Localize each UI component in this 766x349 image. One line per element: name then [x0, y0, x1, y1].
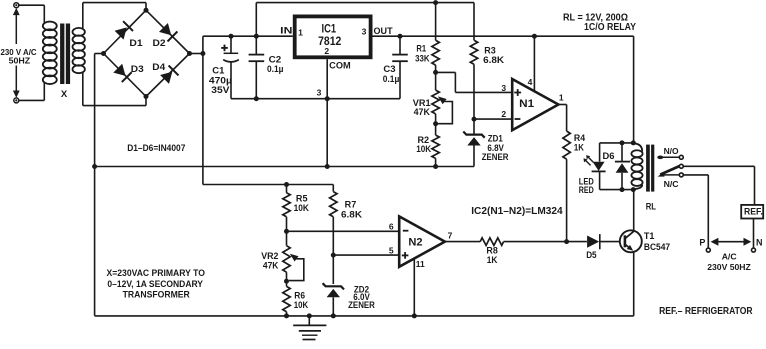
node bridge left — [101, 51, 106, 56]
label D1 — [129, 38, 142, 48]
svg-text:47K: 47K — [414, 107, 431, 117]
node terminal P — [706, 248, 710, 252]
transformer X primary winding — [43, 22, 57, 84]
node VR1-R2 junction — [433, 121, 438, 126]
capacitor C2 — [249, 36, 265, 98]
svg-text:COM: COM — [329, 61, 351, 71]
wire R4 bottom — [566, 159, 568, 241]
pin 2 N1 — [501, 109, 506, 119]
node pin4 junction — [532, 34, 537, 39]
svg-text:10K: 10K — [294, 300, 309, 310]
wire top rail down to bridge top node — [145, 3, 147, 11]
svg-text:D2: D2 — [153, 38, 166, 48]
wire secondary top to top rail — [83, 3, 146, 29]
transistor T1 BC547 — [620, 230, 642, 252]
node coil top junction — [631, 140, 636, 145]
relay armature — [658, 166, 680, 177]
wire R1 bottom — [435, 65, 437, 90]
wire bridge edge bottom-right — [146, 54, 190, 97]
label N/C — [664, 179, 679, 189]
svg-text:33K: 33K — [415, 54, 430, 64]
wire ground bus middle — [95, 166, 474, 168]
label COM — [329, 61, 351, 71]
wire ground bus under caps — [231, 98, 400, 100]
N2 plus — [402, 252, 409, 259]
svg-text:1: 1 — [559, 92, 564, 102]
pin 3 IC1 — [362, 27, 367, 37]
label T1 BC547 — [644, 231, 670, 252]
svg-text:6.8K: 6.8K — [341, 210, 363, 220]
resistor R8 — [480, 238, 503, 246]
svg-text:D1: D1 — [129, 38, 142, 48]
label LED RED — [579, 176, 594, 195]
node pin11 ground junction — [412, 313, 417, 318]
label OUT — [374, 26, 394, 36]
label D5 — [586, 250, 596, 260]
node bridge top — [144, 8, 149, 13]
wire bridge edge left-bottom — [104, 54, 147, 97]
diode D4 — [160, 66, 178, 84]
wire relay top bus — [600, 142, 634, 144]
svg-text:ZENER: ZENER — [348, 300, 375, 310]
arrow A/C span — [711, 238, 752, 246]
node R1 top junction — [433, 0, 438, 5]
pin 1 N1 — [559, 92, 564, 102]
wire R5 top lead — [286, 185, 288, 193]
load REF box — [741, 205, 763, 219]
wire relay supply corner — [633, 36, 635, 145]
wire D5 to T1 base — [600, 241, 624, 243]
label D4 — [152, 62, 165, 72]
VR2 wiper — [289, 254, 304, 281]
relay contact N/C — [662, 173, 684, 177]
svg-text:6.8K: 6.8K — [483, 55, 505, 65]
wire bridge edge top-right — [146, 10, 190, 53]
svg-text:N/C: N/C — [664, 179, 679, 189]
diode D2 — [159, 23, 177, 41]
label R3 6.8K — [483, 45, 505, 65]
svg-text:R1: R1 — [416, 44, 426, 54]
svg-text:47K: 47K — [263, 260, 279, 270]
label P — [699, 238, 705, 248]
svg-text:1C/O RELAY: 1C/O RELAY — [584, 22, 636, 33]
label R2 10K — [416, 135, 431, 154]
svg-text:REF.– REFRIGERATOR: REF.– REFRIGERATOR — [659, 305, 753, 317]
pin 3 N1 — [501, 83, 506, 93]
node AC input terminal top — [14, 3, 19, 8]
svg-text:IN: IN — [280, 26, 292, 36]
potentiometer VR2 — [283, 246, 290, 273]
node C3 top junction — [398, 34, 403, 39]
svg-text:ZENER: ZENER — [482, 152, 509, 162]
svg-text:1K: 1K — [574, 142, 584, 152]
relay coil RL — [631, 143, 642, 189]
svg-text:11: 11 — [416, 259, 425, 269]
op-amp N1 — [512, 79, 558, 130]
op-amp N2 — [399, 216, 445, 266]
svg-text:N1: N1 — [519, 98, 534, 110]
wire R3 top — [473, 3, 475, 41]
svg-text:3: 3 — [501, 83, 506, 93]
svg-text:REF.: REF. — [744, 206, 763, 216]
svg-text:T1: T1 — [644, 231, 655, 241]
svg-text:230V 50HZ: 230V 50HZ — [707, 262, 751, 272]
wire bridge bottom node down — [145, 97, 147, 106]
label R1 33K — [415, 44, 430, 64]
svg-text:3: 3 — [362, 27, 367, 37]
wire unregulated rail to IC1 IN — [203, 35, 293, 37]
svg-text:0.1µ: 0.1µ — [267, 64, 284, 74]
zener ZD1 — [463, 132, 484, 167]
resistor R7 — [330, 192, 337, 217]
label D6 — [603, 151, 615, 161]
node VR2-R6 junction — [284, 279, 289, 284]
svg-text:2: 2 — [324, 46, 329, 56]
label node 3 — [317, 88, 322, 98]
pin 7 N2 — [448, 230, 453, 240]
label IN — [280, 26, 292, 36]
svg-text:D4: D4 — [152, 62, 165, 72]
node junction plus bus — [200, 51, 205, 56]
wire R7 column top — [332, 185, 334, 192]
transformer X secondary winding — [73, 28, 85, 73]
node D6 bottom junction — [620, 187, 625, 192]
diode D1 — [115, 21, 133, 39]
node R5 top junction — [284, 182, 289, 187]
svg-text:0–12V, 1A SECONDARY: 0–12V, 1A SECONDARY — [107, 279, 203, 289]
label R7 6.8K — [341, 200, 363, 220]
diode D3 — [113, 64, 131, 82]
svg-text:470µ: 470µ — [209, 76, 232, 86]
wire N2 output — [445, 241, 480, 243]
diode D5 — [587, 234, 600, 249]
diode D6 freewheel — [615, 143, 630, 190]
svg-text:7: 7 — [448, 230, 453, 240]
svg-text:7812: 7812 — [318, 34, 341, 48]
wire R5 bottom — [286, 217, 288, 246]
label R8 1K — [486, 246, 497, 265]
svg-text:X=230VAC PRIMARY TO: X=230VAC PRIMARY TO — [107, 268, 205, 278]
svg-text:N/O: N/O — [664, 146, 679, 156]
node pin6 junction — [284, 229, 289, 234]
wire R1 top — [435, 3, 437, 41]
wire plus feed to dividers — [203, 184, 333, 186]
wire — [43, 82, 45, 101]
label C3 value — [383, 64, 400, 84]
node coil bottom junction — [631, 187, 636, 192]
wire VR1 bottom — [435, 114, 437, 135]
wire — [19, 4, 45, 6]
wire to N1 pin3 — [436, 72, 513, 92]
node COM-ground junction — [325, 164, 330, 169]
node ground-left junction — [92, 164, 97, 169]
label R6 10K — [294, 290, 309, 310]
svg-text:IC2(N1–N2)=LM324: IC2(N1–N2)=LM324 — [471, 205, 563, 217]
node pin2 junction — [472, 117, 477, 122]
wire VR2 bottom — [286, 272, 288, 286]
label IC2(N1-N2)=LM324 — [471, 205, 563, 217]
capacitor C1 — [221, 36, 239, 98]
svg-text:10K: 10K — [416, 144, 431, 154]
wire to N1 pin2 — [474, 118, 512, 120]
label RL — [646, 201, 656, 212]
wire regulated rail from IC1 OUT — [373, 35, 634, 37]
label 7812 — [318, 34, 341, 48]
op-amp regulator IC1 7812 box — [295, 16, 371, 57]
label N — [756, 238, 763, 248]
label A/C 230V 50HZ — [707, 251, 751, 272]
node earth junction — [307, 313, 312, 318]
node C2 ground junction — [254, 96, 259, 101]
svg-text:D3: D3 — [131, 64, 144, 74]
node COM ground junction — [325, 96, 330, 101]
svg-text:4: 4 — [528, 77, 533, 87]
wire T1 emitter down — [633, 252, 635, 316]
svg-text:C1: C1 — [212, 66, 224, 76]
label D1-D6=IN4007 — [127, 143, 185, 153]
label D2 — [153, 38, 166, 48]
pin 1 IC1 — [298, 28, 303, 38]
svg-text:35V: 35V — [211, 85, 229, 95]
zener ZD2 — [323, 283, 344, 316]
label 230 V A/C 50HZ with arrows — [1, 8, 37, 98]
pin 5 N2 — [389, 245, 394, 255]
node pin5 junction — [331, 253, 336, 258]
wire to N2 pin6 — [287, 230, 400, 232]
resistor R1 — [432, 40, 439, 65]
svg-text:1: 1 — [298, 28, 303, 38]
svg-text:TRANSFORMER: TRANSFORMER — [123, 289, 191, 299]
relay contact common — [679, 164, 683, 168]
wire common to REF — [683, 166, 754, 205]
wire N1 output — [558, 105, 566, 132]
label ZD2 6.0V ZENER — [348, 284, 375, 310]
label RL = 12V 200ohm — [563, 12, 628, 23]
svg-text:D1–D6=IN4007: D1–D6=IN4007 — [127, 143, 185, 153]
pin 6 N2 — [389, 222, 394, 232]
label D3 — [131, 64, 144, 74]
label ZD1 6.8V ZENER — [482, 134, 509, 162]
svg-text:BC547: BC547 — [644, 242, 670, 252]
label IC1 — [322, 22, 337, 36]
potentiometer VR1 — [432, 90, 439, 114]
svg-text:R3: R3 — [484, 45, 496, 55]
N2 minus — [403, 230, 409, 232]
LED D6 red — [584, 143, 606, 190]
wire bridge right node to plus bus — [190, 53, 203, 55]
svg-text:N: N — [756, 238, 763, 248]
node R6 ground junction — [284, 313, 289, 318]
label C2 value — [267, 55, 284, 74]
svg-text:RED: RED — [579, 185, 594, 195]
svg-text:10K: 10K — [294, 203, 310, 213]
svg-text:OUT: OUT — [374, 26, 394, 36]
pin 11 N2 — [416, 259, 425, 269]
wire N1 pin4 supply — [533, 36, 535, 91]
label REF refrigerator — [659, 305, 753, 317]
svg-text:C3: C3 — [383, 64, 395, 74]
wire riser to top rail — [255, 3, 257, 37]
label N/O — [664, 146, 679, 156]
label transformer note — [107, 268, 205, 299]
label C1 value — [209, 66, 232, 95]
node bridge bottom — [144, 94, 149, 99]
svg-text:R6: R6 — [294, 290, 305, 300]
wire R3 bottom to ZD1 — [473, 64, 475, 134]
svg-text:RL: RL — [646, 201, 656, 212]
wire bridge edge left-top — [104, 10, 147, 53]
label 1C/O RELAY — [584, 22, 636, 33]
resistor R2 — [432, 135, 439, 158]
wire R2 bottom — [435, 158, 437, 166]
svg-text:D5: D5 — [586, 250, 596, 260]
wire plus vertical — [202, 36, 204, 184]
svg-text:X: X — [61, 89, 68, 100]
svg-text:2: 2 — [501, 109, 506, 119]
N1 plus — [514, 89, 521, 96]
relay core — [646, 145, 654, 192]
node ZD2 ground junction — [331, 313, 336, 318]
node R1-VR1 junction — [433, 70, 438, 75]
resistor R5 — [283, 193, 290, 217]
node C1 top junction — [229, 34, 234, 39]
label N1 — [519, 98, 534, 110]
svg-text:R7: R7 — [345, 200, 357, 210]
wire IC1 COM to ground — [326, 59, 328, 166]
label R4 1K — [574, 133, 585, 152]
wire to N2 pin5 — [333, 254, 399, 256]
svg-text:0.1µ: 0.1µ — [383, 74, 400, 84]
relay contact N/O — [657, 155, 683, 159]
wire T1 collector up — [633, 190, 635, 231]
wire relay bottom bus — [600, 189, 634, 191]
svg-text:P: P — [699, 238, 705, 248]
transformer X core — [60, 24, 70, 85]
svg-text:50HZ: 50HZ — [9, 56, 31, 66]
pin 4 N1 — [528, 77, 533, 87]
wire bottom ground rail — [95, 315, 634, 317]
svg-text:5: 5 — [389, 245, 394, 255]
wire secondary bottom — [83, 73, 146, 106]
wire top rail — [256, 2, 474, 4]
label X — [61, 89, 68, 100]
resistor R4 — [563, 131, 570, 159]
node R4-R8 junction — [564, 239, 569, 244]
wire — [19, 99, 45, 101]
svg-text:3: 3 — [317, 88, 322, 98]
svg-text:1K: 1K — [487, 255, 498, 265]
resistor R3 — [470, 40, 477, 64]
node AC input terminal bottom — [14, 98, 19, 103]
N1 minus — [515, 118, 521, 120]
svg-text:A/C: A/C — [722, 251, 738, 261]
node bridge right — [187, 51, 192, 56]
svg-text:D6: D6 — [603, 151, 615, 161]
node terminal N — [752, 248, 756, 252]
wire N2 pin11 to ground — [413, 259, 415, 316]
svg-text:N2: N2 — [408, 237, 422, 249]
wire R6 bottom — [286, 312, 288, 316]
svg-text:6: 6 — [389, 222, 394, 232]
resistor R6 — [283, 286, 290, 311]
VR1 wiper — [438, 96, 453, 123]
label VR1 47K — [413, 98, 431, 117]
wire R8 to D5 — [504, 241, 587, 243]
node R2 ground junction — [433, 164, 438, 169]
ground — [293, 316, 326, 340]
wire REF to N — [753, 219, 755, 248]
node D6 top junction — [620, 140, 625, 145]
label N2 — [408, 237, 422, 249]
wire N/C to P — [683, 175, 708, 248]
wire R7 bottom — [332, 217, 334, 284]
wire bridge left node to ground bus — [95, 54, 104, 316]
pin 2 IC1 — [324, 46, 329, 56]
label VR2 47K — [261, 251, 279, 270]
wire — [43, 5, 45, 22]
node top-rail riser junction — [254, 34, 259, 39]
capacitor C3 — [392, 36, 408, 98]
label R5 10K — [294, 194, 310, 213]
